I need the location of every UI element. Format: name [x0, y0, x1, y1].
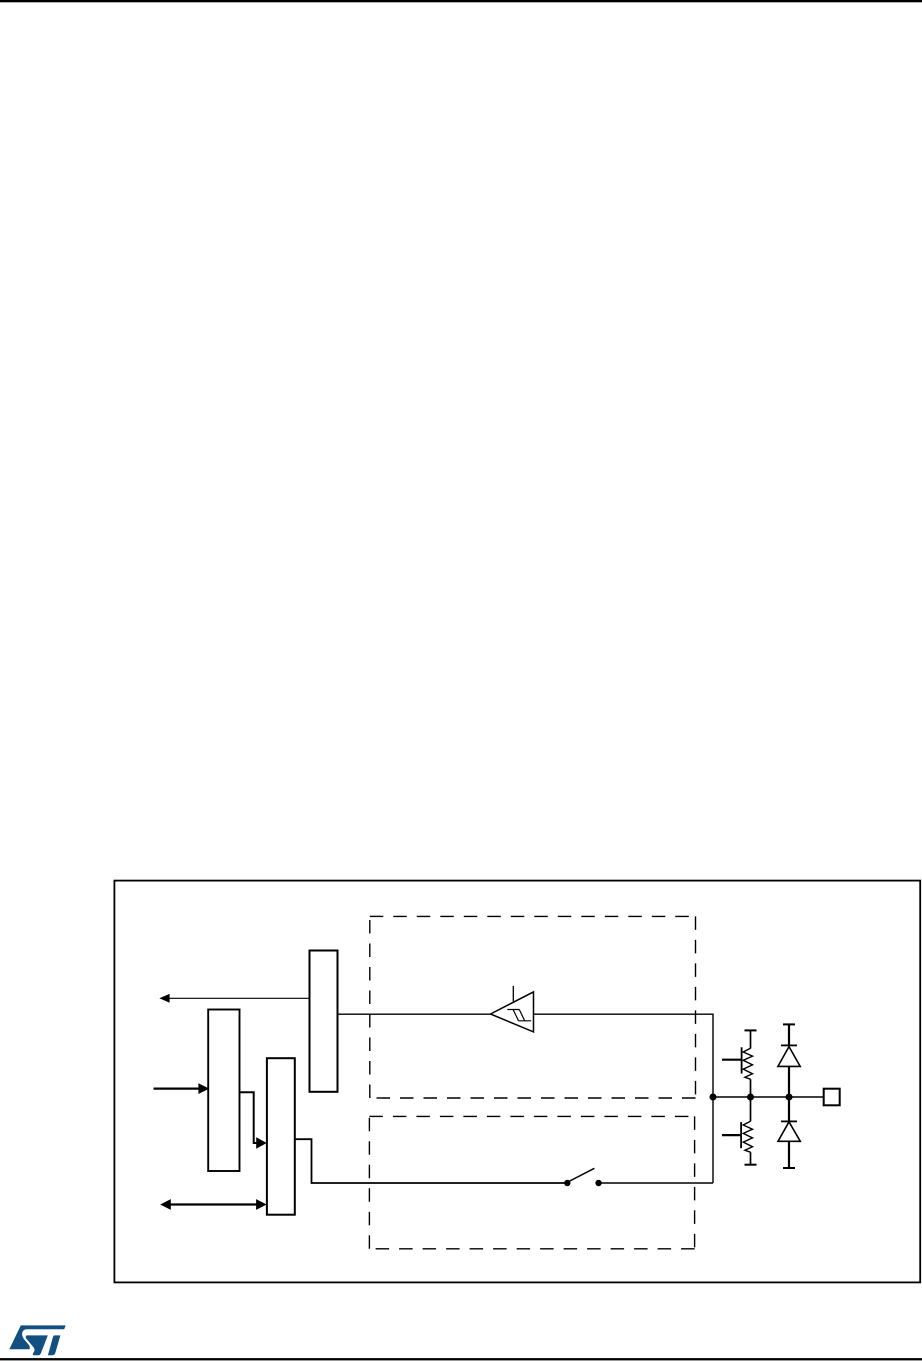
wire: input data register to Schmitt trigger output	[338, 1013, 491, 1015]
page top rule	[0, 0, 922, 2]
input data register block	[310, 951, 338, 1092]
protection diode D2 to VSS	[778, 1097, 800, 1168]
node junction C	[786, 1094, 793, 1101]
pull-up resistor R_PU with switch gate	[722, 1030, 753, 1097]
Schmitt trigger U1 (TTL, points left)	[491, 992, 534, 1032]
pull-down resistor R_PD with switch gate	[722, 1097, 753, 1165]
hysteresis symbol	[507, 1010, 531, 1021]
VDD rail (pull-up)	[745, 1029, 757, 1031]
wire: output register to bit set/reset register arrow	[240, 1092, 267, 1149]
ST logo	[9, 1325, 65, 1355]
node junction B	[747, 1094, 754, 1101]
wire: read/write double arrow	[160, 1199, 267, 1210]
protection diode D1 to VDD	[778, 1024, 800, 1097]
wire: switch to I/O node	[599, 1182, 713, 1184]
dashed box: analog input section	[369, 1116, 694, 1248]
wire: write arrow (into output data register)	[154, 1083, 210, 1094]
node junction A	[710, 1094, 717, 1101]
wire: I/O node line to pad	[713, 1096, 824, 1098]
figure frame	[114, 881, 920, 1283]
I/O pin pad	[824, 1089, 840, 1106]
page bottom rule	[0, 1358, 922, 1360]
bit set/reset register block	[267, 1058, 295, 1215]
VDD rail (protection diode)	[783, 1023, 795, 1025]
wire: Schmitt trigger input from I/O node	[534, 1014, 714, 1183]
wire: read arrow (to bus, left-pointing)	[159, 994, 309, 1003]
dashed box: input driver section	[370, 916, 696, 1098]
wire: bit set/reset register to analog switch	[295, 1139, 565, 1183]
output data register block	[208, 1010, 239, 1172]
VSS rail (pull-down)	[745, 1164, 757, 1166]
analog switch SW1	[564, 1168, 602, 1186]
Schmitt trigger enable stub	[512, 986, 514, 1002]
VSS rail (protection diode)	[783, 1167, 795, 1169]
